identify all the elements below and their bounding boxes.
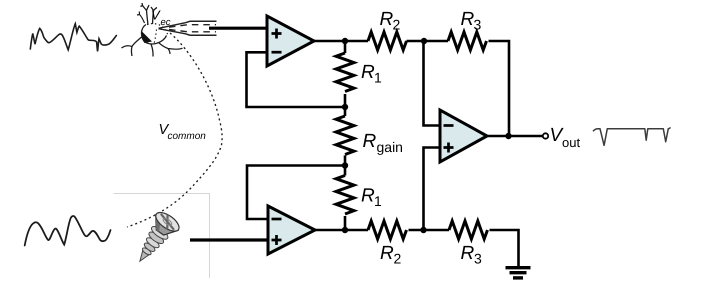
resistor R3 (top) [448, 32, 486, 50]
wire R2 to R3 (bottom) [409, 229, 450, 232]
dotted common-mode curve [127, 33, 222, 227]
output waveform [593, 127, 670, 145]
node F junction: U2 output / R1 bottom / R2 bottom [342, 227, 348, 233]
gray image-frame lines [114, 194, 210, 279]
wire electrode to op-amp U1 + input [209, 27, 267, 30]
svg-text:1: 1 [374, 70, 382, 86]
svg-text:R: R [361, 186, 375, 207]
resistor R2 (top) [368, 32, 406, 50]
neuron dark wedge [142, 32, 152, 44]
svg-text:R: R [380, 9, 394, 30]
svg-text:gain: gain [377, 139, 403, 155]
wire R2 to R3 (top) [407, 40, 449, 43]
resistor Rgain [336, 116, 354, 154]
ground [506, 266, 531, 269]
Vout terminal circle [543, 133, 548, 138]
svg-text:1: 1 [374, 193, 382, 209]
wire U2 feedback [247, 166, 345, 220]
op-amp U1 (top) [267, 16, 314, 66]
op-amp U3 (middle/difference) [440, 110, 487, 162]
svg-text:out: out [562, 135, 580, 150]
node C junction: U1 feedback / R1-Rgain [342, 104, 348, 110]
resistor R3 (bottom) [449, 221, 487, 239]
svg-text:R: R [380, 243, 394, 264]
node B junction: R2 / R3 / U3 inverting input [421, 38, 427, 44]
resistor R2 (bottom) [368, 221, 406, 239]
svg-text:2: 2 [393, 17, 401, 33]
neuron apical dendrites [141, 3, 150, 25]
pipette inner dashed walls [169, 25, 216, 28]
bone screw electrode [129, 209, 182, 269]
wire U2 output to R2 (bottom) [314, 229, 368, 232]
node A junction: U1 output / R1 top / R2 top [342, 38, 348, 44]
wire Rgain to R1 (bottom) [344, 155, 347, 175]
neuron basal dendrites left [122, 37, 142, 56]
svg-text:3: 3 [474, 251, 482, 267]
op-amp U2 (bottom) [268, 206, 315, 254]
wire U1 feedback [247, 52, 346, 107]
wire U3 inverting input [424, 41, 441, 126]
wire U3 non-inverting input [424, 148, 441, 231]
wire R3 (bottom) to ground [490, 230, 519, 267]
svg-text:R: R [361, 62, 375, 83]
svg-text:R: R [461, 9, 475, 30]
resistor R1 (bottom) [336, 176, 354, 214]
wire R1 (bottom) to node F [344, 216, 347, 230]
wire U1 output to R2 [313, 40, 368, 43]
resistor R1 (top) [336, 53, 354, 92]
node Vout junction: U3 output / R3 feedback [505, 133, 511, 139]
wire U3 output to Vout [486, 135, 543, 138]
input waveform (extracellular signal, top-left) [30, 24, 116, 52]
svg-text:3: 3 [474, 17, 482, 33]
reference waveform (bottom-left) [25, 216, 111, 245]
neuron dotted electrode track [154, 30, 157, 44]
neuron basal dendrites bottom [151, 44, 153, 57]
neuron basal dendrites right [159, 43, 183, 54]
svg-text:2: 2 [394, 251, 402, 267]
svg-text:V: V [151, 8, 161, 23]
svg-text:common: common [168, 131, 207, 142]
electrode pipette [159, 21, 217, 28]
svg-text:R: R [363, 131, 377, 152]
wire R3 to U3 output node [489, 41, 510, 136]
svg-text:R: R [461, 243, 475, 264]
wire node A to R1 (top) [344, 41, 347, 53]
neuron soma outline [141, 25, 166, 44]
wire R1 (top) to Rgain [344, 94, 347, 116]
neuron soma dotted membrane [147, 24, 168, 35]
node G junction: R2 / R3 / U3 non-inverting input [420, 227, 426, 233]
wire screw to op-amp U2 + input [190, 238, 268, 241]
node D junction: U2 feedback / Rgain-R1 [342, 162, 348, 168]
